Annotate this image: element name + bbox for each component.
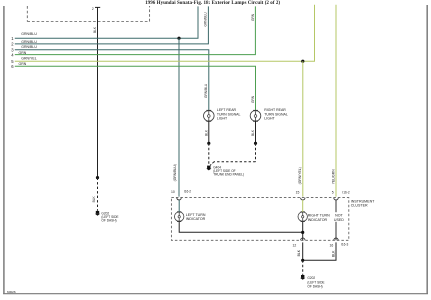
lamp left turn indicator <box>175 211 184 222</box>
svg-text:TRUNK END PANEL): TRUNK END PANEL) <box>213 173 244 177</box>
svg-text:GRN: GRN <box>251 13 255 21</box>
svg-text:16: 16 <box>330 243 334 247</box>
svg-text:GRN: GRN <box>19 51 27 55</box>
wire BLK dashed to ground G202 right <box>302 260 304 275</box>
svg-text:BLK: BLK <box>93 26 97 33</box>
left page border bar <box>3 6 5 294</box>
ground G404 <box>206 166 211 171</box>
svg-text:GRN: GRN <box>251 95 255 103</box>
svg-text:I16-3: I16-3 <box>341 243 348 247</box>
wire BLK dashed horizontal to ground G404 <box>214 161 256 163</box>
wire BLK dashed to ground G202 left <box>97 178 99 211</box>
svg-text:YEL/GRN: YEL/GRN <box>332 169 336 184</box>
svg-text:RIGHT TURN: RIGHT TURN <box>308 213 330 217</box>
wire GRN/YEL vertical to instrument cluster <box>302 61 304 196</box>
lamp L1 left rear turn signal light <box>204 110 215 122</box>
wire 5 GRN/YEL horizontal <box>15 5 315 61</box>
wire not-used vertical through cluster <box>335 200 337 240</box>
terminal arcs top edge <box>177 198 181 200</box>
wire teal terminal to left indicator <box>178 200 180 212</box>
wire lime terminal to right indicator <box>302 200 304 212</box>
svg-text:GRN: GRN <box>19 62 27 66</box>
wire BLK below right lamp <box>255 121 257 143</box>
svg-text:GRN/BLU: GRN/BLU <box>21 32 37 36</box>
svg-text:OF DASH): OF DASH) <box>307 285 322 289</box>
svg-text:GRN/BLU: GRN/BLU <box>204 83 208 98</box>
right page border bar <box>426 5 428 294</box>
label not used <box>333 212 344 222</box>
svg-text:GRN/BLU: GRN/BLU <box>21 40 37 44</box>
svg-text:CLUSTER: CLUSTER <box>351 204 368 208</box>
wire BLK vertical from pin 2 <box>97 7 99 177</box>
wire YEL/GRN vertical from top to cluster <box>335 5 337 197</box>
wire 3 GRN/BLU horizontal to left rear turn signal <box>15 50 209 111</box>
node splice at G202 branch <box>301 259 304 262</box>
svg-text:INDICATOR: INDICATOR <box>308 218 328 222</box>
svg-text:NOT: NOT <box>335 213 343 217</box>
wire BLK below left lamp <box>208 121 210 143</box>
wire BLK below cluster right with corner <box>303 242 336 260</box>
svg-text:10: 10 <box>171 190 175 194</box>
svg-text:GRN/YEL: GRN/YEL <box>21 56 36 60</box>
node splice below right lamp <box>254 142 257 145</box>
svg-text:GRN/BLU: GRN/BLU <box>203 12 207 27</box>
lamp L2 right rear turn signal light <box>250 110 261 122</box>
svg-text:BLK: BLK <box>297 249 301 256</box>
svg-text:(GRN/YEL): (GRN/YEL) <box>298 167 302 184</box>
wire 6 GRN horizontal to right rear turn signal <box>15 66 256 110</box>
wire from left indicator down and right <box>179 222 303 232</box>
terminal arcs bottom edge <box>301 238 305 240</box>
ground G202 left <box>95 211 100 216</box>
node splice on left BLK wire <box>96 176 99 179</box>
svg-text:GRN/BLU: GRN/BLU <box>21 45 37 49</box>
svg-text:USED: USED <box>334 218 344 222</box>
svg-text:(GRN/BLU): (GRN/BLU) <box>173 164 177 181</box>
wire BLK dashed down from right lamp <box>255 143 257 162</box>
svg-text:BLK: BLK <box>92 196 96 203</box>
svg-text:1996 Hyundai Sonata-Fig. 18: E: 1996 Hyundai Sonata-Fig. 18: Exterior La… <box>145 1 280 6</box>
wire BLK dashed diagonal into ground <box>210 162 214 166</box>
svg-text:60026: 60026 <box>7 290 16 294</box>
svg-text:RIGHT REAR: RIGHT REAR <box>264 108 286 112</box>
svg-text:LEFT REAR: LEFT REAR <box>217 108 237 112</box>
wire right indicator down to bottom edge <box>302 222 304 240</box>
wire 1 GRN/BLU horizontal <box>15 6 198 38</box>
node splice on wire5 <box>301 60 304 63</box>
node splice on wire1 <box>177 37 180 40</box>
svg-text:I16-2: I16-2 <box>184 190 191 194</box>
instrument cluster box <box>171 198 348 241</box>
wire GRN/BLU vertical to instrument cluster <box>178 38 180 196</box>
wire 2 GRN/BLU horizontal <box>15 6 209 44</box>
node splice below left lamp <box>207 142 210 145</box>
svg-text:BLK: BLK <box>251 129 255 136</box>
svg-text:I16-2: I16-2 <box>342 191 349 195</box>
svg-text:BLK: BLK <box>332 250 336 257</box>
svg-text:BLK: BLK <box>204 129 208 136</box>
node splice right indicator <box>301 231 304 234</box>
svg-text:INDICATOR: INDICATOR <box>186 217 206 221</box>
pin 2 tick <box>95 6 100 8</box>
bottom page border line <box>3 293 428 295</box>
svg-text:OF DASH): OF DASH) <box>101 219 116 223</box>
ground G202 right <box>300 275 305 280</box>
svg-text:2: 2 <box>92 7 94 11</box>
connector C (top-left, dashed, off-page) <box>27 6 149 22</box>
wire BLK below cluster left <box>302 242 304 260</box>
svg-text:LIGHT: LIGHT <box>264 116 275 120</box>
wire 4 GRN horizontal <box>15 6 256 54</box>
svg-text:5: 5 <box>332 191 334 195</box>
svg-text:15: 15 <box>296 191 300 195</box>
svg-text:12: 12 <box>293 243 297 247</box>
svg-text:LIGHT: LIGHT <box>217 116 228 120</box>
lamp right turn indicator <box>298 211 307 222</box>
wire BLK dashed to ground <box>208 143 210 164</box>
